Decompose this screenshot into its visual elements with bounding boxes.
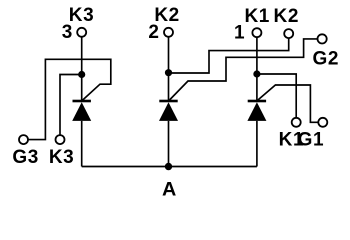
svg-text:K3: K3 — [49, 147, 75, 168]
thyristor V3 triangle — [72, 102, 91, 121]
terminal 2 (K2 top) — [164, 28, 173, 37]
wire auxiliary cathode K3 — [60, 75, 82, 136]
wire auxiliary cathode K2 — [169, 38, 289, 73]
node cathode V1 — [253, 70, 260, 77]
wire anode V2 — [168, 121, 170, 167]
terminal K3 (bottom) — [56, 135, 65, 144]
svg-text:G1: G1 — [298, 130, 325, 151]
wire anode V3 — [81, 121, 83, 167]
svg-text:2: 2 — [148, 22, 159, 43]
wire anode V1 — [256, 121, 258, 167]
wire cathode thyristor V1 — [256, 37, 258, 100]
wire gate V1 to G1 — [258, 85, 318, 122]
svg-text:G2: G2 — [313, 48, 340, 69]
terminal G3 — [19, 135, 28, 144]
thyristor V3 cathode bar — [73, 100, 91, 103]
wire auxiliary cathode K1 — [257, 74, 296, 118]
node A junction — [165, 163, 172, 170]
wire common anode rail — [82, 166, 257, 168]
thyristor V1 triangle — [247, 102, 266, 121]
thyristor V2 triangle — [159, 102, 178, 121]
node cathode V2 — [165, 69, 172, 76]
svg-text:G3: G3 — [12, 147, 39, 168]
svg-text:3: 3 — [62, 22, 73, 43]
terminal G2 — [318, 34, 327, 43]
terminal G1 — [318, 118, 327, 127]
terminal K2 (top right) — [284, 29, 293, 38]
terminal K1 (bottom right) — [292, 118, 301, 127]
wire cathode thyristor V3 — [81, 37, 83, 101]
wire gate V2 to G2 — [170, 39, 318, 100]
svg-text:K1: K1 — [244, 6, 270, 27]
wire cathode thyristor V2 — [168, 37, 170, 101]
svg-text:1: 1 — [234, 23, 245, 44]
svg-text:A: A — [162, 178, 177, 200]
thyristor V1 cathode bar — [248, 100, 266, 103]
terminal 3 (K3 top) — [77, 28, 86, 37]
thyristor V2 cathode bar — [159, 100, 177, 103]
node cathode V3 — [78, 71, 85, 78]
wire gate V3 to G3 — [28, 59, 111, 139]
terminal 1 (K1 top) — [252, 28, 261, 37]
svg-text:K2: K2 — [274, 6, 300, 27]
